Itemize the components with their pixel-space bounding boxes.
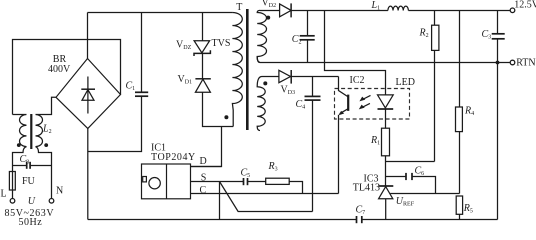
- svg-text:12.5V: 12.5V: [514, 0, 536, 10]
- label 12.5V: [514, 0, 536, 10]
- label IC1 TOP204Y: [151, 143, 196, 164]
- wire: R2 to TL431 cathode node: [386, 161, 435, 163]
- wire: S junction to bottom rail: [219, 182, 221, 220]
- label RTN: [516, 58, 535, 69]
- wire: bridge bottom lead: [87, 129, 89, 220]
- svg-text:LED: LED: [396, 77, 415, 88]
- label C6: [415, 166, 425, 178]
- label C3: [482, 29, 492, 41]
- label C8: [20, 154, 30, 166]
- label L: [1, 189, 7, 200]
- svg-text:C5: C5: [241, 168, 251, 180]
- svg-text:L: L: [1, 189, 7, 200]
- wire: S pin to C5: [191, 181, 244, 183]
- wire: feedback tap to opto LED: [325, 11, 386, 95]
- svg-text:R5: R5: [463, 203, 473, 215]
- label C1: [126, 81, 136, 93]
- svg-text:C1: C1: [126, 81, 136, 93]
- label C: [200, 185, 207, 196]
- label C4: [296, 99, 306, 111]
- svg-text:400V: 400V: [48, 64, 71, 75]
- resistor R5: [456, 196, 462, 220]
- svg-text:C8: C8: [20, 154, 30, 166]
- label IC2: [350, 75, 365, 86]
- label U input voltage: [5, 196, 55, 228]
- terminal N: [49, 199, 54, 204]
- L2 core: [30, 114, 32, 149]
- svg-text:R1: R1: [370, 135, 380, 147]
- transformer core: [246, 9, 249, 130]
- label R1: [370, 135, 380, 147]
- capacitor C8: [13, 162, 52, 169]
- capacitor C4: [305, 77, 321, 212]
- wire: N lead: [51, 166, 53, 199]
- wire: D pin: [191, 166, 222, 168]
- resistor R3: [266, 178, 303, 193]
- junction node at C3/RTN: [496, 61, 500, 65]
- svg-text:U: U: [28, 196, 36, 207]
- wire: VD3 to opto collector: [291, 76, 338, 78]
- wire: drain pin riser: [191, 127, 222, 167]
- capacitor C3: [492, 11, 505, 63]
- label R3: [268, 161, 278, 173]
- svg-text:TL413: TL413: [353, 182, 380, 193]
- terminal RTN: [510, 60, 515, 65]
- wire: secondary to VD2: [260, 10, 280, 12]
- secondary winding phase dot: [266, 16, 270, 20]
- label UREF: [396, 196, 415, 208]
- svg-text:R4: R4: [464, 106, 474, 118]
- label R4: [464, 106, 474, 118]
- diode VD3: [279, 70, 291, 84]
- svg-text:L2: L2: [42, 124, 52, 136]
- opto light arrows: [359, 95, 371, 109]
- label N: [56, 186, 63, 197]
- opto LED diode: [378, 95, 394, 128]
- label C2: [292, 34, 302, 46]
- diode VD2: [280, 3, 292, 17]
- svg-text:UREF: UREF: [396, 196, 415, 208]
- TVS diode VDZ: [194, 13, 210, 57]
- optocoupler IC2 dashed box: [335, 89, 410, 120]
- label R5: [463, 203, 473, 215]
- svg-text:C6: C6: [415, 166, 425, 178]
- transformer T secondary winding (top): [257, 10, 266, 62]
- label D: [200, 156, 207, 167]
- wire: output rail after L1: [408, 10, 510, 12]
- label VD3: [281, 84, 296, 96]
- svg-text:N: N: [56, 186, 63, 197]
- transformer T primary winding: [232, 13, 242, 127]
- terminal L: [10, 199, 15, 204]
- svg-text:R2: R2: [419, 28, 429, 40]
- wire: AC line L loop top: [13, 40, 121, 115]
- opto emitter arrowhead: [339, 111, 345, 115]
- label BR 400V: [48, 54, 71, 75]
- svg-text:VD3: VD3: [281, 84, 296, 96]
- label C7: [356, 205, 366, 217]
- capacitor C1: [88, 13, 148, 152]
- resistor R2: [432, 11, 439, 162]
- svg-text:C3: C3: [482, 29, 492, 41]
- svg-text:RTN: RTN: [516, 58, 535, 69]
- bias winding phase dot: [263, 81, 267, 85]
- fuse FU: [9, 166, 15, 199]
- diode VD1: [195, 53, 233, 126]
- bottom rail (primary side): [88, 219, 357, 221]
- svg-text:50Hz: 50Hz: [19, 217, 43, 227]
- label T: [236, 2, 242, 13]
- svg-text:R3: R3: [268, 161, 278, 173]
- svg-text:L1: L1: [371, 0, 381, 12]
- label S: [201, 172, 207, 183]
- capacitor C6: [386, 173, 436, 194]
- label FU: [22, 176, 36, 187]
- svg-text:C7: C7: [356, 205, 366, 217]
- bottom rail (secondary side): [362, 219, 498, 221]
- svg-text:VDZ: VDZ: [176, 40, 192, 52]
- svg-text:VD1: VD1: [178, 74, 193, 86]
- svg-text:C: C: [200, 185, 207, 196]
- svg-text:TVS: TVS: [212, 38, 231, 49]
- inductor L1: [388, 6, 408, 10]
- terminal +12.5V: [510, 8, 515, 13]
- svg-text:C4: C4: [296, 99, 306, 111]
- resistor R4: [456, 11, 463, 194]
- label VD2: [262, 0, 277, 9]
- svg-text:TOP204Y: TOP204Y: [151, 152, 196, 163]
- label LED: [396, 77, 415, 88]
- wire: bias winding to VD3: [262, 76, 279, 78]
- IC1 TOP204Y body: [142, 164, 191, 199]
- label VDZ TVS: [176, 38, 230, 51]
- svg-text:IC2: IC2: [350, 75, 365, 86]
- capacitor C5: [244, 178, 266, 185]
- transformer T bias winding: [257, 77, 265, 131]
- capacitor C2: [300, 11, 315, 63]
- L2 phase dots: [17, 143, 21, 147]
- wire: secondary output rail to L1: [291, 10, 388, 12]
- label IC3 TL413: [353, 173, 380, 193]
- bridge rectifier BR: [56, 59, 121, 129]
- svg-text:T: T: [236, 2, 242, 13]
- opto phototransistor: [339, 77, 349, 194]
- svg-text:S: S: [201, 172, 207, 183]
- label R2: [419, 28, 429, 40]
- capacitor C7: [357, 216, 362, 223]
- wire: bridge top lead to primary rail: [87, 13, 89, 59]
- wire: bias return to source junction: [220, 182, 313, 212]
- wire: RTN down to bottom rail: [497, 63, 499, 220]
- label L2: [42, 124, 52, 136]
- label VD1: [178, 74, 193, 86]
- common-mode choke L2 left winding: [13, 115, 27, 166]
- label C5: [241, 168, 251, 180]
- shunt regulator IC3 TL431: [378, 186, 459, 220]
- resistor R1: [382, 128, 390, 186]
- wire: C pin line: [191, 193, 339, 195]
- svg-text:VD2: VD2: [262, 0, 277, 9]
- common-mode choke L2 right winding: [36, 97, 57, 165]
- svg-text:FU: FU: [22, 176, 36, 187]
- diode inside bridge: [81, 77, 95, 114]
- primary winding phase dot: [224, 115, 228, 119]
- svg-text:D: D: [200, 156, 207, 167]
- label L1: [371, 0, 381, 12]
- wire: primary top rail: [88, 12, 233, 14]
- wire: RTN rail: [257, 57, 510, 63]
